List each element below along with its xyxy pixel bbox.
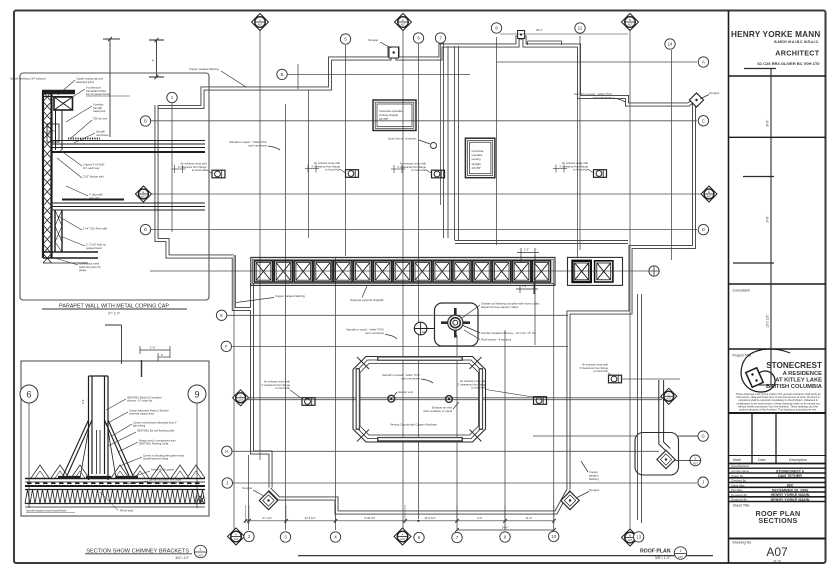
svg-text:AT KITLEY LAKE: AT KITLEY LAKE (775, 378, 822, 384)
svg-text:9: 9 (194, 390, 199, 400)
roof plan title (298, 555, 713, 557)
svg-text:G: G (701, 434, 704, 439)
svg-text:TEK air vent: TEK air vent (93, 117, 108, 121)
grid lines (150, 28, 702, 530)
svg-text:1"x4" T&G Pine soffit: 1"x4" T&G Pine soffit (83, 227, 107, 231)
svg-text:ROOF PLAN: ROOF PLAN (640, 549, 671, 555)
svg-text:Scupper: Scupper (589, 488, 599, 492)
svg-text:to hood side: to hood side (275, 386, 290, 390)
pyramid skylight 13 (493, 261, 511, 282)
svg-text:A07: A07 (678, 555, 683, 559)
svg-text:3/8"= 1'-0": 3/8"= 1'-0" (655, 556, 671, 560)
vertical dimension line in title block (733, 69, 776, 386)
svg-text:A07: A07 (628, 538, 633, 542)
svg-text:A07: A07 (707, 194, 712, 198)
small dim 1-2 above strip (517, 248, 539, 263)
sarnafil label mid (346, 328, 384, 336)
pyramid skylight 7 (374, 261, 392, 282)
svg-text:A07: A07 (666, 397, 671, 401)
svg-text:SENTINEL flat roof flashing co: SENTINEL flat roof flashing collar (137, 430, 174, 433)
svg-text:Roof braces - 4 required: Roof braces - 4 required (481, 338, 512, 342)
svg-text:Sarnafil flashing to 3/4" plyw: Sarnafil flashing to 3/4" plywood (10, 78, 46, 81)
scupper box top notch 2 (518, 31, 525, 39)
pyramid skylight 11 (453, 261, 471, 282)
roof outline upper section (double line) (157, 31, 704, 524)
svg-text:A07: A07 (198, 554, 203, 558)
svg-text:H: H (225, 449, 228, 454)
svg-text:A: A (235, 533, 237, 537)
columbia skylight box 1 (373, 100, 416, 131)
svg-text:C: C (668, 392, 670, 396)
svg-text:11'-2": 11'-2" (526, 516, 532, 520)
svg-text:HENRY YORKE MANN: HENRY YORKE MANN (771, 493, 810, 497)
svg-text:HENRY YORKE MANN: HENRY YORKE MANN (771, 498, 810, 502)
section diamonds (252, 14, 269, 31)
svg-text:A: A (702, 60, 705, 65)
svg-text:A07: A07 (141, 194, 146, 198)
svg-text:BRITISH COLUMBIA: BRITISH COLUMBIA (766, 384, 823, 390)
svg-text:roof membrane: roof membrane (365, 331, 384, 335)
svg-text:flashing: flashing (589, 477, 599, 481)
svg-text:13: 13 (636, 534, 641, 539)
svg-text:D: D (702, 227, 705, 232)
air exhaust vents lower (302, 398, 315, 406)
copper leader flashing label (589, 470, 599, 481)
parapet wall detail box (20, 73, 209, 300)
svg-text:Quiet Set no. of shown: Quiet Set no. of shown (388, 137, 417, 141)
svg-text:10: 10 (551, 534, 556, 539)
scupper box top-left notch (389, 47, 399, 58)
svg-text:HENRY YORKE MANN: HENRY YORKE MANN (731, 30, 820, 39)
svg-text:to hood side: to hood side (325, 168, 340, 172)
svg-text:D: D (144, 227, 147, 232)
svg-text:to hood side: to hood side (573, 168, 588, 172)
svg-text:Sheet Size: Sheet Size (731, 483, 745, 487)
air exhaust vents row y=174 (212, 170, 225, 178)
svg-text:F: F (225, 344, 228, 349)
svg-text:STONECREST 6: STONECREST 6 (776, 469, 804, 473)
svg-text:J: J (226, 481, 228, 486)
grid bubbles left (140, 116, 150, 126)
svg-text:Gas air vent: Gas air vent (398, 390, 413, 394)
svg-text:2'-6": 2'-6" (81, 399, 85, 404)
svg-text:roof membrane: roof membrane (593, 96, 612, 100)
project title text (766, 361, 823, 390)
pyramid skylight pair 2 (595, 261, 613, 282)
svg-text:D.F. each way: D.F. each way (83, 166, 100, 170)
svg-text:1'-6": 1'-6" (150, 346, 156, 350)
svg-text:to hood side: to hood side (471, 386, 486, 390)
svg-text:Mark: Mark (733, 458, 741, 462)
svg-text:Sarnafil burp/ gasket: Sarnafil burp/ gasket (151, 469, 174, 472)
svg-text:Scupper: Scupper (242, 486, 252, 490)
svg-text:Copper parapet flashing: Copper parapet flashing (189, 67, 219, 71)
svg-text:STONECREST: STONECREST (766, 361, 822, 370)
svg-text:13'0 1/2": 13'0 1/2" (766, 314, 770, 328)
pyramid skylight 3 (294, 261, 312, 282)
strip end bubble (649, 266, 659, 276)
svg-text:A07: A07 (238, 398, 243, 402)
svg-text:A07: A07 (400, 537, 405, 541)
grid bubbles right (698, 57, 708, 67)
revision table columns (729, 413, 826, 464)
svg-text:to hood side: to hood side (411, 168, 426, 172)
pyramid skylight 5 (334, 261, 352, 282)
svg-text:9": 9" (151, 59, 155, 61)
svg-text:Drawing No: Drawing No (733, 541, 752, 545)
info rows (729, 468, 826, 501)
svg-text:vent strip: vent strip (89, 196, 100, 200)
upper-left left edge with steps (157, 105, 271, 488)
pyramid skylight pair 1 (573, 261, 591, 282)
svg-text:2"x2" blocker joist: 2"x2" blocker joist (83, 175, 104, 179)
svg-text:waterproof: waterproof (93, 109, 106, 113)
svg-text:of 16: of 16 (773, 560, 781, 564)
pyramid skylight 4 (314, 261, 332, 282)
svg-text:13'-6 1/2": 13'-6 1/2" (305, 516, 316, 520)
svg-text:C: C (702, 118, 705, 123)
svg-text:Sunhat insulated chimney - 13: Sunhat insulated chimney - 13" O.D. / 8"… (481, 331, 536, 335)
svg-text:C: C (240, 394, 242, 398)
label sarnafil in cupola (382, 373, 420, 381)
small dim rulers top-left (149, 38, 164, 79)
right wall down and bottom-right region (270, 98, 698, 513)
svg-text:ARCHITECT: ARCHITECT (775, 49, 820, 58)
central venting cupola skylight (353, 356, 486, 442)
svg-text:Copper parapet flashing: Copper parapet flashing (275, 294, 305, 298)
svg-text:Date: Date (758, 458, 766, 462)
roof drain box bottom-right (635, 380, 698, 475)
svg-text:DAN TETHER: DAN TETHER (778, 474, 802, 478)
svg-text:1'-2": 1'-2" (522, 284, 527, 288)
label sarnafil upper-left (229, 140, 267, 148)
svg-text:Arch ventilator or equal: Arch ventilator or equal (423, 409, 452, 413)
svg-text:1: 1 (680, 549, 682, 553)
svg-text:DECEMBER 28, 2006: DECEMBER 28, 2006 (772, 488, 808, 492)
end dot x420 dim (417, 520, 419, 522)
svg-text:watertight joints: watertight joints (76, 80, 95, 84)
svg-text:Drawn By: Drawn By (731, 474, 744, 478)
svg-text:A07: A07 (766, 545, 788, 559)
label sarnafil upper-right (574, 92, 612, 100)
grid bubbles top (167, 92, 177, 102)
svg-text:8'-6": 8'-6" (766, 119, 770, 127)
svg-text:SECTIONS: SECTIONS (758, 516, 797, 525)
grid bubble 6 in detail (20, 385, 38, 403)
skylight strip container (251, 257, 555, 285)
svg-text:24"x55": 24"x55" (379, 117, 389, 121)
svg-text:to hood side: to hood side (593, 369, 608, 373)
svg-text:1'-2": 1'-2" (524, 248, 529, 252)
svg-text:A07: A07 (693, 461, 698, 465)
svg-text:1: 1 (200, 548, 202, 552)
chimney brackets detail box (21, 361, 209, 516)
pyramid skylight 6 (354, 261, 372, 282)
svg-text:28'-2": 28'-2" (536, 28, 543, 32)
svg-text:roof membrane: roof membrane (401, 377, 420, 381)
parapet detail drawing (42, 92, 205, 263)
svg-text:Job File Name: Job File Name (731, 469, 749, 473)
svg-text:A07: A07 (422, 330, 427, 334)
svg-text:B: B (281, 72, 284, 77)
svg-text:A: A (402, 18, 404, 22)
svg-text:Plot Date: Plot Date (731, 488, 743, 492)
svg-text:B: B (144, 119, 147, 124)
svg-text:SENTINEL Flashing Collar: SENTINEL Flashing Collar (139, 443, 169, 446)
svg-text:Issue/Revision: Issue/Revision (731, 464, 750, 468)
pyramid skylight 14 (513, 261, 531, 282)
bottom dimension lines (244, 505, 556, 532)
pyramid skylight 1 (254, 261, 272, 282)
svg-text:Consultant: Consultant (733, 289, 750, 293)
svg-text:A07: A07 (628, 22, 633, 26)
pyramid skylight 10 (433, 261, 451, 282)
svg-text:B.ARCH. M.A.I.B.C. M.R.A.I.: B.ARCH. M.A.I.B.C. M.R.A.I.C. (774, 40, 819, 44)
svg-text:A RESIDENCE: A RESIDENCE (783, 371, 823, 377)
svg-text:Gargoyle pyramid skylights: Gargoyle pyramid skylights (350, 298, 384, 302)
legal paragraph (736, 392, 821, 412)
scupper corner top right (689, 93, 703, 107)
architect spiral logo (741, 349, 790, 392)
svg-text:Checked By: Checked By (731, 479, 747, 483)
pyramid skylight 9 (413, 261, 431, 282)
bottom bubbles (228, 528, 245, 545)
inner roof edge verticals near x=443/453 (444, 43, 629, 244)
svg-text:A: A (402, 533, 404, 537)
svg-text:SENTINEL base blocking: SENTINEL base blocking (149, 482, 178, 485)
pyramid skylight 15 (532, 261, 550, 282)
svg-text:J: J (702, 480, 704, 485)
svg-text:B: B (629, 18, 631, 22)
svg-text:3/4"= 1'0": 3/4"= 1'0" (175, 556, 189, 560)
svg-text:parapet beam: parapet beam (86, 246, 102, 250)
svg-text:universal support base: universal support base (129, 413, 155, 416)
svg-text:S1 C26 RR3 OLIVER BC V0H: S1 C26 RR3 OLIVER BC V0H 1T0 (757, 61, 820, 66)
svg-text:Sheet Title: Sheet Title (733, 504, 750, 508)
svg-text:24"x55": 24"x55" (472, 166, 482, 170)
svg-text:FM air weld: FM air weld (120, 510, 134, 513)
pyramid skylight 2 (274, 261, 292, 282)
detail circle 5/A07 right (690, 455, 701, 466)
chimney with sunhat flashing (435, 303, 479, 346)
svg-text:venting: venting (472, 157, 481, 161)
chimney labels (481, 302, 540, 310)
svg-text:E: E (708, 190, 710, 194)
bubble B mid-air (277, 69, 287, 79)
svg-text:Scupper: Scupper (368, 38, 378, 42)
svg-text:portions property of the Archi: portions property of the Architect. This… (739, 408, 817, 412)
chimney stack (58, 376, 138, 480)
svg-text:lateral chimney support, Mass.: lateral chimney support, Mass. (481, 305, 519, 309)
svg-text:roof membrane: roof membrane (248, 144, 267, 148)
svg-text:14: 14 (668, 42, 673, 47)
copper leader pipe right side (638, 294, 642, 523)
svg-text:A07: A07 (258, 22, 263, 26)
svg-text:tape: tape (47, 132, 53, 136)
section line EE lower parallel (246, 399, 662, 401)
svg-text:A07: A07 (401, 22, 406, 26)
pyramid skylight 12 (473, 261, 491, 282)
svg-text:6": 6" (161, 353, 163, 357)
svg-text:line of parapet barrier: line of parapet barrier (86, 92, 111, 96)
architect name block (731, 30, 820, 66)
scupper corner bottom-right of lower section (561, 491, 579, 509)
detail bubble on chimney line (414, 322, 435, 335)
svg-text:24'-6": 24'-6" (502, 525, 509, 529)
svg-text:Designed By: Designed By (731, 498, 747, 502)
svg-text:12: 12 (578, 26, 583, 31)
title block frame (729, 11, 826, 564)
svg-text:Venting Cupola with Copper Win: Venting Cupola with Copper Windows (390, 423, 437, 427)
svg-text:A: A (259, 18, 261, 22)
grid bubble 9 in detail (188, 385, 206, 403)
svg-text:A07: A07 (234, 537, 239, 541)
svg-text:to hood side: to hood side (192, 168, 207, 172)
svg-text:Reviewed By: Reviewed By (731, 493, 748, 497)
small dim near chimney top (516, 283, 538, 294)
svg-text:9'-6": 9'-6" (766, 215, 770, 223)
svg-text:9'-6": 9'-6" (477, 516, 482, 520)
svg-text:8'-50 1/2": 8'-50 1/2" (365, 516, 376, 520)
pyramid skylight 8 (393, 261, 411, 282)
scupper corner bottom-left of lower section (259, 491, 277, 509)
columbia skylight box 2 (465, 138, 495, 178)
svg-text:3"= 1'-0": 3"= 1'-0" (108, 312, 120, 316)
svg-text:Sarnafil wrapped wood branch/b: Sarnafil wrapped wood branch/block (26, 510, 67, 513)
svg-text:6: 6 (26, 390, 31, 400)
svg-text:chimney - 8" inside dia.: chimney - 8" inside dia. (127, 400, 153, 403)
svg-text:Description: Description (789, 458, 807, 462)
svg-text:E: E (143, 190, 145, 194)
svg-text:membrane: membrane (96, 133, 109, 137)
svg-text:B: B (629, 534, 631, 538)
svg-text:4'-7 1/2": 4'-7 1/2" (262, 516, 272, 520)
svg-text:gauge: gauge (79, 269, 87, 272)
svg-text:Scupper: Scupper (709, 91, 719, 95)
skylight pair container (568, 257, 623, 285)
svg-text:16'-0 1/2": 16'-0 1/2" (425, 516, 436, 520)
svg-text:Sarnafil aperture fitting: Sarnafil aperture fitting (143, 458, 169, 461)
svg-text:36C: 36C (787, 484, 794, 488)
svg-text:light tubing: light tubing (133, 425, 146, 428)
svg-text:E: E (220, 313, 223, 318)
